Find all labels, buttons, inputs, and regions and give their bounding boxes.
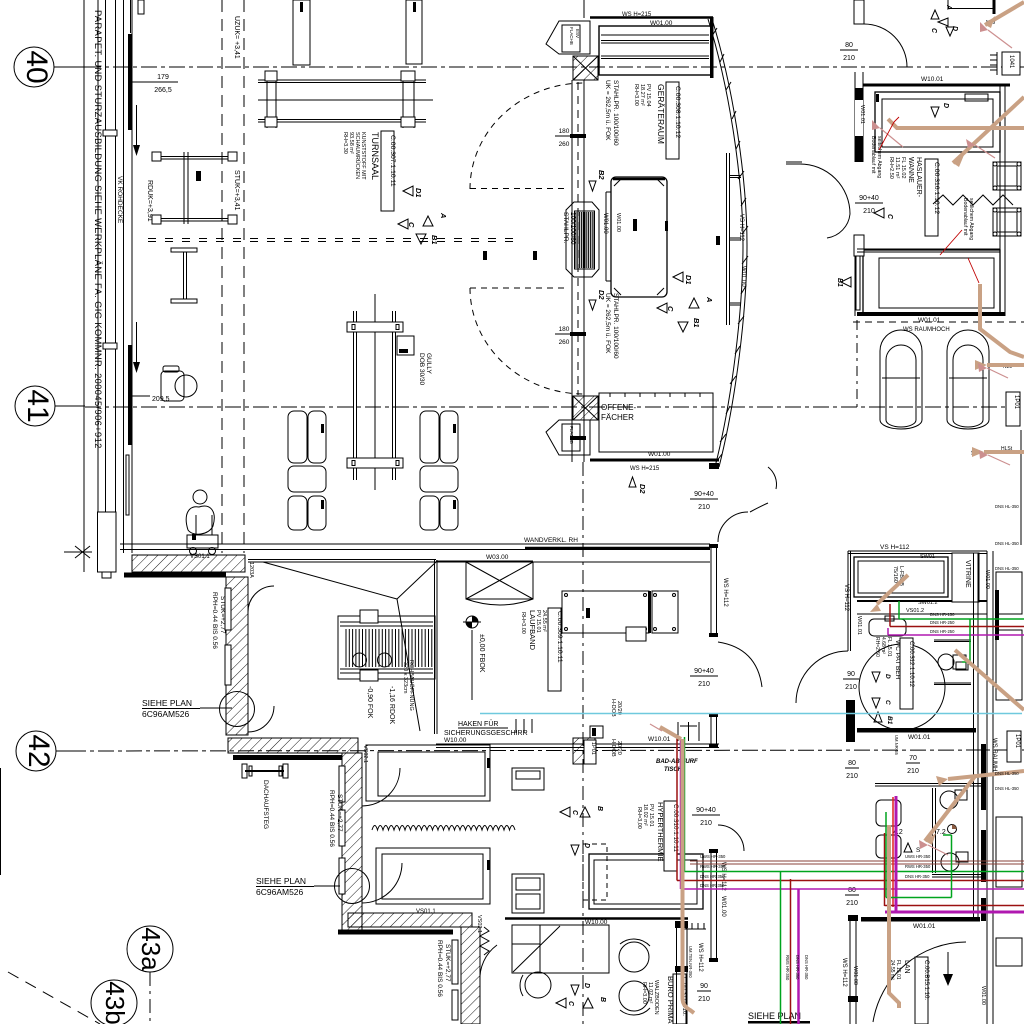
svg-text:VS02.1: VS02.1 [476, 915, 482, 933]
svg-text:VS01.1: VS01.1 [416, 909, 436, 915]
room label GERAETERAUM [633, 84, 666, 144]
svg-text:D1: D1 [414, 188, 423, 198]
svg-text:UZUK= +3,41: UZUK= +3,41 [233, 16, 240, 59]
svg-text:VS01.2: VS01.2 [906, 608, 924, 614]
dim 70/210 [907, 755, 919, 775]
red leader tub2 [968, 258, 979, 283]
haken text [444, 720, 528, 737]
buero east wall [709, 849, 718, 962]
door arc lan [873, 942, 966, 1022]
svg-text:RWS HR-350: RWS HR-350 [905, 864, 931, 869]
svg-text:43b: 43b [100, 981, 130, 1024]
svg-text:210: 210 [846, 773, 858, 780]
svg-text:D: D [942, 103, 949, 108]
svg-text:RH=3.00: RH=3.00 [633, 84, 639, 106]
dim 90/210 buero [698, 983, 710, 1003]
svg-text:SIEHE PLAN: SIEHE PLAN [748, 1011, 801, 1021]
arrow down 1 [136, 105, 138, 148]
lan west wall [848, 915, 858, 1024]
svg-text:W10.01: W10.01 [921, 76, 944, 83]
svg-text:RPH=0.44 BIS 0.56: RPH=0.44 BIS 0.56 [328, 790, 335, 847]
svg-text:WANNE: WANNE [907, 157, 914, 183]
svg-text:C.00.308.1.10.12: C.00.308.1.10.12 [674, 86, 681, 138]
svg-text:STUK=+3,41: STUK=+3,41 [233, 170, 240, 211]
down arrow lan [943, 952, 953, 986]
svg-text:W01.01: W01.01 [908, 734, 931, 741]
grid bubble 43a [127, 926, 173, 972]
door stub corridor [854, 235, 864, 256]
haslauer bottom wall [857, 312, 1005, 316]
svg-text:W01.01: W01.01 [859, 105, 865, 124]
volleyball posts [347, 294, 403, 490]
corridor wall y744 [436, 744, 719, 748]
meeting chairs [619, 939, 650, 1015]
svg-text:A: A [705, 296, 714, 302]
zigzag spring F [480, 927, 489, 955]
pipe magenta vertical wc [885, 796, 1024, 912]
svg-text:SIEHE PLAN: SIEHE PLAN [142, 698, 192, 708]
gym mats right [420, 411, 458, 530]
svg-text:SICHERUNGSGESCHIRR: SICHERUNGSGESCHIRR [444, 730, 528, 737]
W10.00 wall buero [505, 917, 688, 920]
svg-text:B: B [599, 997, 606, 1002]
vitrine room walls [846, 551, 987, 742]
hyperthermie dashed rect [583, 844, 607, 900]
room label TURNSAAL [342, 132, 380, 180]
grid line 40 [85, 66, 1024, 68]
hyperthermie bath [589, 854, 703, 909]
svg-text:UM.TEN.NR-350: UM.TEN.NR-350 [688, 946, 693, 978]
ESV box top [546, 21, 590, 54]
dim 180/260 lower [559, 326, 570, 346]
svg-text:W01.00: W01.00 [852, 966, 858, 985]
centerline vertical x222 [221, 0, 223, 553]
svg-text:DNS HL-350: DNS HL-350 [995, 786, 1019, 791]
svg-text:D1: D1 [684, 275, 693, 285]
WC PAT BEH label [874, 637, 901, 680]
parapet note lines [83, 0, 85, 572]
svg-text:75/160: 75/160 [892, 566, 898, 583]
svg-text:C: C [666, 306, 675, 312]
siehe plan 2 [256, 876, 306, 897]
bottom wall line2 [590, 459, 719, 462]
svg-text:±0,00 FBOK: ±0,00 FBOK [478, 634, 485, 673]
arrows top right [930, 4, 958, 36]
svg-text:6C96AM526: 6C96AM526 [142, 709, 190, 719]
right edge wall [1000, 85, 1005, 316]
hatched wall band E [338, 913, 472, 932]
stair texts [366, 686, 395, 724]
door arc wc [796, 651, 848, 703]
dim 179/266,5 [154, 74, 172, 94]
callout circle 2 [335, 869, 370, 904]
svg-text:90+40: 90+40 [696, 807, 716, 814]
hatched wall vertical B [225, 577, 248, 735]
svg-text:90: 90 [847, 671, 855, 678]
hooks marks [516, 719, 532, 733]
stahlpr text upper [604, 80, 619, 146]
grid line 43a [149, 972, 151, 1024]
tan diag 648 [955, 650, 1024, 710]
red leader tub1 [879, 117, 899, 150]
H-DOB text 2 [610, 739, 622, 757]
pipe green vertical bundle [685, 737, 1024, 872]
siehe plan 1 [142, 698, 192, 719]
right column room 3 [996, 817, 1022, 887]
laufband right wall [435, 560, 438, 734]
svg-text:W03.00: W03.00 [486, 554, 509, 561]
svg-text:WS H=215: WS H=215 [630, 466, 660, 472]
wall lines x105-116 [105, 0, 107, 556]
svg-text:210: 210 [843, 55, 855, 62]
svg-text:B2: B2 [597, 170, 606, 180]
door arc F [480, 945, 497, 982]
grid line 41 [85, 406, 1005, 408]
staircase [338, 610, 435, 681]
svg-text:RPH=0.44 BIS 0.56: RPH=0.44 BIS 0.56 [436, 940, 443, 997]
svg-text:W01.01: W01.01 [913, 923, 936, 930]
dim 90+40/210 corridor [859, 195, 879, 215]
arrow down 2 [136, 322, 138, 365]
svg-text:80: 80 [848, 887, 856, 894]
room number box C.00.312 [900, 638, 914, 709]
bathroom2 wall black [981, 744, 986, 921]
hatched wall band A [124, 555, 245, 575]
wall stub x590 [590, 726, 603, 738]
haslauer mid wall [857, 249, 1000, 252]
window wall x124-132 [123, 0, 125, 553]
svg-text:1203A: 1203A [248, 562, 254, 578]
laufband top wall [248, 560, 710, 563]
cyan water line [480, 713, 1022, 715]
svg-text:W01.00: W01.00 [615, 213, 621, 232]
D arrow tub1 [931, 103, 949, 117]
pipe brown double 2 [690, 863, 1024, 865]
column 1 [293, 0, 310, 65]
svg-text:W01.00: W01.00 [720, 896, 726, 917]
svg-text:SIEHE PLAN: SIEHE PLAN [256, 876, 306, 886]
heater comb buero [682, 923, 706, 929]
svg-text:W10.00: W10.00 [444, 737, 467, 744]
haslauer label [888, 157, 922, 198]
tan diag top right 1 [985, 2, 1024, 25]
rohbau leader lines [263, 562, 436, 731]
right column room 4 [996, 938, 1022, 966]
podium [606, 177, 668, 297]
svg-text:OFFENE-: OFFENE- [601, 403, 636, 412]
svg-text:70: 70 [909, 755, 917, 762]
door arc buero [718, 825, 744, 851]
dim 90/210 wc [845, 671, 857, 691]
right column room 1 [996, 572, 1022, 614]
D2 arrow lower [629, 477, 647, 494]
svg-text:SCHAUMRÜCKEN: SCHAUMRÜCKEN [354, 132, 361, 179]
tan arrow hlst [984, 450, 1024, 454]
hatched wall vertical F [452, 927, 480, 1024]
svg-text:20/20: 20/20 [616, 741, 622, 755]
room number box C.00.B15 [915, 957, 929, 1024]
grid bubble 40 [14, 47, 85, 87]
svg-text:STUK=+2,77: STUK=+2,77 [336, 794, 343, 832]
D C B1 arrows wc [872, 672, 893, 725]
svg-text:WS H=112: WS H=112 [697, 943, 703, 972]
RPH text F [436, 940, 451, 997]
RPH text B [211, 592, 226, 649]
svg-text:RPH=0.44 BIS 0.56: RPH=0.44 BIS 0.56 [211, 592, 218, 649]
pipe darkred vertical bundle [677, 737, 1024, 881]
svg-text:80: 80 [845, 42, 853, 49]
svg-text:260: 260 [559, 141, 570, 148]
right column room 2 [996, 630, 1022, 700]
grab bars [934, 640, 971, 685]
door arcs corridor east [718, 512, 762, 687]
target circle [948, 825, 957, 834]
buero chair [520, 972, 551, 998]
tub 2 [863, 250, 1000, 313]
1P01 box b [1007, 731, 1021, 762]
haslauer top wall [863, 84, 1010, 87]
W01.01 gap in wall [855, 100, 863, 136]
B1 arrow tub2 [836, 277, 851, 287]
svg-text:UK = 262,5m ü. FOK: UK = 262,5m ü. FOK [604, 80, 611, 141]
sink unit right 2 [993, 208, 1021, 236]
red note bodenablauf 1 [870, 136, 882, 178]
pipe red vertical wc2 [660, 2, 1024, 1013]
wavy heating line [372, 826, 515, 831]
svg-text:RH=2.50: RH=2.50 [888, 157, 894, 179]
svg-text:STUK=+2,77: STUK=+2,77 [444, 944, 451, 982]
svg-text:C: C [884, 700, 891, 705]
tan vertical bundle [683, 739, 695, 1013]
corridor east wall x711 [709, 544, 718, 637]
dim 80/210 top [843, 42, 855, 62]
svg-text:C.00.316.1.10.12: C.00.316.1.10.12 [933, 162, 940, 214]
svg-text:180: 180 [559, 326, 570, 333]
svg-text:C.00.307.1.10.11: C.00.307.1.10.11 [389, 135, 396, 187]
90+40/210 gym exit [694, 491, 714, 511]
svg-text:VK ROHDECKE: VK ROHDECKE [116, 176, 123, 224]
grid bubble 41 [15, 386, 85, 426]
gym bottom wall [120, 544, 710, 550]
svg-text:seitlichem Abgang: seitlichem Abgang [968, 198, 974, 240]
svg-text:WS H=112: WS H=112 [841, 958, 847, 987]
bad abwurf text [656, 759, 698, 773]
pipe darkred vertical left [790, 879, 792, 1024]
haslauer left wall [855, 72, 863, 316]
ESV box bottom [546, 420, 590, 455]
svg-text:B1: B1 [836, 278, 843, 287]
callout circle 1 [220, 692, 255, 727]
svg-text:GERÄTERAUM: GERÄTERAUM [656, 84, 666, 144]
pipe green loop wc [886, 812, 952, 898]
door arc gym exit [750, 503, 768, 512]
door arcs from wall D [362, 768, 402, 903]
svg-text:STUK=+2,77: STUK=+2,77 [219, 596, 226, 634]
svg-text:W01.01: W01.01 [918, 317, 941, 324]
svg-text:180: 180 [559, 128, 570, 135]
pillar [98, 512, 117, 572]
svg-text:40: 40 [20, 50, 53, 83]
svg-text:W01.00: W01.00 [648, 451, 671, 458]
shower tub L-FBOB [854, 557, 948, 597]
crossed box [466, 562, 533, 605]
top right corner walls [948, 0, 994, 14]
svg-text:W01.00: W01.00 [602, 213, 608, 234]
bathroom2 bottom wall [861, 917, 980, 922]
hatched wall vertical D [339, 753, 362, 930]
room number box C.00.308 [666, 82, 681, 159]
room number box C.00.307 [381, 131, 396, 211]
svg-text:-1,16 RDOK: -1,16 RDOK [388, 686, 395, 724]
dim 80/210 lan [846, 887, 858, 907]
room number box C.00.316 [925, 159, 940, 236]
svg-text:W10.01: W10.01 [648, 736, 671, 743]
svg-text:PARAPET. UND STURZAUSBILDUNG S: PARAPET. UND STURZAUSBILDUNG SIEHE WERKP… [93, 10, 103, 449]
gully text [418, 353, 432, 386]
pipe brown double 1 [690, 860, 1024, 862]
svg-text:1P01: 1P01 [1013, 395, 1019, 410]
svg-text:1P01: 1P01 [1014, 734, 1020, 749]
heater symbol 1041 [990, 52, 1020, 75]
pipe green toilet [962, 619, 970, 662]
open shelf rect [599, 393, 713, 452]
tan diag top right 2 [953, 97, 1024, 163]
washer room A [366, 745, 490, 801]
desk laufband [562, 591, 678, 641]
svg-text:210: 210 [698, 996, 710, 1003]
svg-text:DNS HR-150: DNS HR-150 [930, 612, 955, 617]
hatched box bottom [573, 396, 598, 420]
svg-text:W01.01: W01.01 [856, 616, 862, 635]
svg-text:DNS HR-350: DNS HR-350 [700, 883, 725, 888]
door arc left low [768, 467, 776, 489]
door arcs from wall B [248, 586, 274, 732]
pipe red vertical bundle [681, 737, 1024, 889]
grid line 42 [70, 750, 1024, 751]
I-beam column [171, 248, 197, 303]
svg-text:FÄCHER: FÄCHER [601, 413, 634, 422]
section arrows west [398, 186, 448, 245]
sink unit right 1 [993, 162, 1021, 190]
svg-text:FLACHB: FLACHB [569, 426, 574, 444]
tan vertical tub2 [980, 284, 1024, 357]
svg-text:D2: D2 [597, 290, 606, 300]
svg-text:UK = 262,5m ü. FOK: UK = 262,5m ü. FOK [604, 293, 611, 354]
red leader zig [940, 230, 962, 255]
shower stall 2 [947, 330, 989, 429]
svg-text:210: 210 [698, 681, 710, 688]
tan vertical lan [889, 825, 899, 1008]
svg-text:210: 210 [845, 684, 857, 691]
pink arrow 6 [928, 845, 948, 855]
svg-text:-0,90 FOK: -0,90 FOK [366, 686, 373, 719]
hatched wall band C [228, 738, 358, 758]
tan horiz tub [888, 119, 1024, 128]
red note bodenablauf 2 [962, 198, 974, 240]
right column walls [987, 551, 993, 1024]
dashed line below wall [853, 321, 1024, 323]
grid line 43b diagonal [8, 972, 100, 1024]
pink arrow 4 [987, 368, 1008, 378]
1P01 box [1006, 392, 1020, 426]
svg-text:UWS HR-350: UWS HR-350 [700, 854, 726, 859]
svg-text:VITRINE: VITRINE [964, 560, 971, 588]
svg-text:DNS HL-350: DNS HL-350 [995, 504, 1019, 509]
svg-text:HAKEN FÜR: HAKEN FÜR [458, 720, 498, 728]
svg-text:B1: B1 [692, 318, 701, 328]
curved gym wall [708, 19, 748, 469]
buero divider wall [675, 921, 688, 1024]
person figure [186, 490, 214, 540]
svg-text:DACHAUFSTEG: DACHAUFSTEG [262, 780, 269, 829]
svg-text:266,5: 266,5 [154, 87, 172, 94]
svg-text:DNS HR-350: DNS HR-350 [804, 955, 809, 980]
svg-text:DNS HL-350: DNS HL-350 [995, 566, 1019, 571]
svg-text:SW01.2: SW01.2 [918, 600, 938, 606]
centerline vertical x583 [582, 462, 584, 1024]
svg-text:SW01: SW01 [920, 554, 935, 560]
svg-text:Bodenablauf mit: Bodenablauf mit [870, 136, 876, 174]
svg-text:WANDVERKL. RH: WANDVERKL. RH [524, 537, 578, 544]
svg-text:DNS HR-250: DNS HR-250 [930, 629, 955, 634]
svg-text:24.55 m²: 24.55 m² [541, 610, 547, 632]
window glazing bar 2 [128, 345, 132, 445]
svg-text:H-DOB: H-DOB [610, 739, 616, 757]
svg-text:H-DOB: H-DOB [610, 699, 616, 717]
svg-text:41: 41 [21, 389, 54, 422]
svg-text:ESV: ESV [575, 29, 580, 38]
pink arrow 5 [988, 455, 1010, 465]
svg-text:W01.00: W01.00 [980, 986, 986, 1005]
svg-text:HASLAUER-: HASLAUER- [915, 157, 922, 198]
svg-text:RWS HR-350: RWS HR-350 [700, 864, 726, 869]
svg-text:B1: B1 [886, 716, 893, 725]
hatched box top [573, 56, 598, 80]
svg-text:90: 90 [700, 983, 708, 990]
svg-text:D: D [951, 26, 958, 31]
svg-text:210: 210 [907, 768, 919, 775]
svg-text:90+40: 90+40 [694, 668, 714, 675]
wc bottom wall [857, 728, 976, 733]
dumbbell roof walk [242, 764, 288, 778]
tan diag wc [925, 775, 976, 841]
stahlpr text lower [604, 293, 619, 359]
arrows buero lower [556, 983, 606, 1008]
dim 180/260 upper [559, 128, 570, 148]
svg-text:DOB 30/30: DOB 30/30 [418, 353, 425, 386]
svg-text:LAN: LAN [903, 960, 910, 974]
right edge vertical [1020, 430, 1022, 545]
svg-text:TURNSAAL: TURNSAAL [370, 132, 380, 180]
double dashed line y239 [148, 238, 520, 240]
siehe plan 3 [748, 1011, 801, 1021]
D2 arrow mid [589, 290, 606, 310]
tan horiz top right low [948, 771, 1024, 779]
svg-text:90+40: 90+40 [694, 491, 714, 498]
svg-text:C.00.B15.1.10.: C.00.B15.1.10. [923, 960, 929, 1000]
room number box C.00.310 [664, 801, 679, 871]
S triangle [904, 843, 921, 854]
gully box [397, 336, 414, 355]
RPH text D [328, 790, 343, 847]
column 2 [406, 0, 422, 64]
toilet beh [938, 654, 968, 670]
svg-text:B: B [596, 806, 603, 811]
svg-text:210: 210 [863, 208, 875, 215]
svg-text:VS H=112: VS H=112 [843, 584, 849, 612]
zigzag wall break [933, 195, 1013, 205]
svg-text:RH=3.00: RH=3.00 [520, 612, 526, 634]
